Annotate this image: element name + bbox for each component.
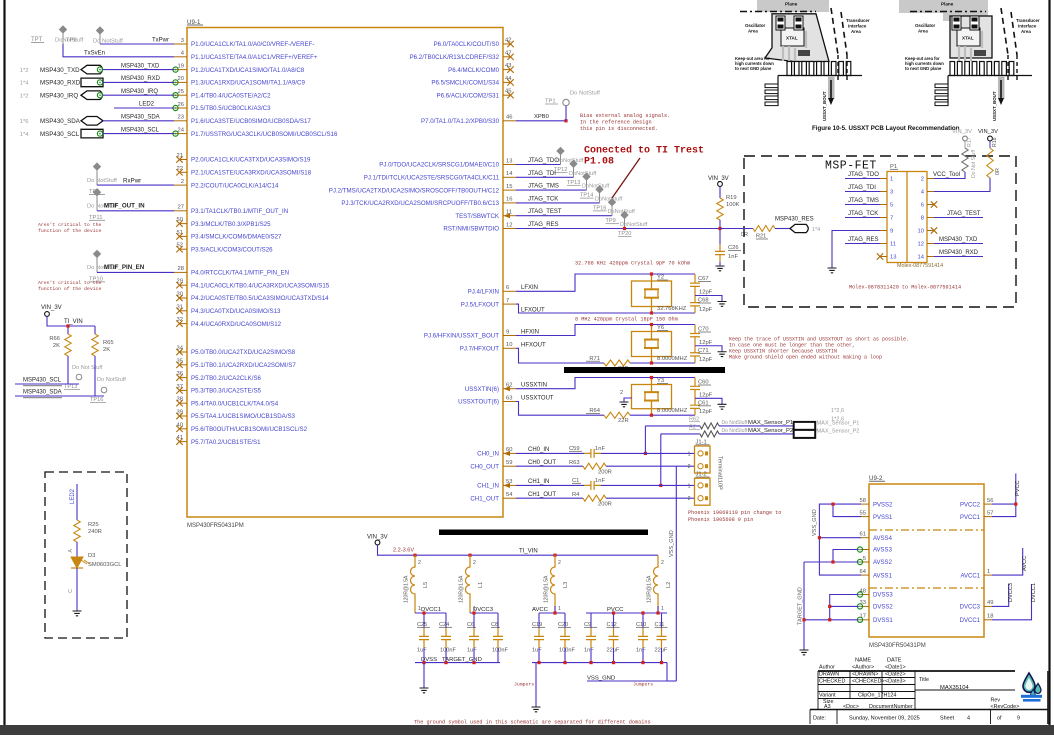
pin 45 P6.6 xyxy=(437,89,514,100)
svg-text:DVSS3: DVSS3 xyxy=(873,593,893,599)
wire R21 to port xyxy=(775,228,790,230)
wire MAX_Sensor_P2 xyxy=(659,434,794,487)
svg-text:P2.2/COUT/UCA0CLK/A14/C14: P2.2/COUT/UCA0CLK/A14/C14 xyxy=(191,182,279,189)
svg-text:CH0_OUT: CH0_OUT xyxy=(470,463,499,470)
wire PVCC xyxy=(992,474,1021,517)
wire C1 to J1-2.1 xyxy=(601,484,694,486)
svg-text:P4.1/UCA0CLK/TB0.4/UCA3RXD/UCA: P4.1/UCA0CLK/TB0.4/UCA3RXD/UCA3SOMI/S15 xyxy=(191,282,330,289)
pin - AVSS3 xyxy=(857,547,892,554)
svg-text:P1.1/UCA1STE/TA4.0/A1/C1/VREF+: P1.1/UCA1STE/TA4.0/A1/C1/VREF+/VEREF+ xyxy=(191,54,318,61)
pins 13/14 of P1 xyxy=(880,255,934,261)
pin 32 P4.4 xyxy=(176,317,281,328)
resistor R64 22R xyxy=(586,408,630,424)
svg-text:55: 55 xyxy=(860,510,866,516)
pin 14 PJ.1 xyxy=(364,171,516,181)
svg-text:TP16: TP16 xyxy=(90,397,103,403)
svg-text:MSP430_TXD: MSP430_TXD xyxy=(40,67,80,74)
svg-text:3: 3 xyxy=(890,190,893,196)
wire MTIF_PIN_EN to U9-1 xyxy=(97,264,174,272)
svg-text:VSS_GND: VSS_GND xyxy=(812,509,818,536)
svg-text:5: 5 xyxy=(890,203,893,209)
pin 12 RST xyxy=(443,222,516,232)
note: Conected to TI Trest P1.08 xyxy=(584,145,704,199)
svg-text:9: 9 xyxy=(890,229,893,235)
svg-text:P4.3/UCA0TXD/UCA0SIMO/S13: P4.3/UCA0TXD/UCA0SIMO/S13 xyxy=(191,308,281,315)
wire pin4 to 0R xyxy=(934,178,990,192)
capacitor C19 1uF xyxy=(532,622,545,654)
svg-text:R18: R18 xyxy=(992,137,998,147)
svg-text:C: C xyxy=(68,589,74,593)
svg-text:DVCC3: DVCC3 xyxy=(960,605,981,611)
svg-text:R4: R4 xyxy=(572,492,580,498)
svg-text:USSXTOUT(6): USSXTOUT(6) xyxy=(458,399,499,406)
svg-text:23: 23 xyxy=(178,115,184,121)
test point TP20 Do Not Stuff xyxy=(618,211,648,237)
wire MAX_Sensor_P1 xyxy=(644,426,794,455)
pin 43 P6.4 xyxy=(448,63,514,74)
connector J1-1 xyxy=(688,440,710,474)
capacitor C71 12pF xyxy=(690,346,713,363)
svg-text:D3: D3 xyxy=(88,553,95,559)
capacitor C70 12pF xyxy=(690,325,713,346)
wire DVCC3 caps to DVSS rail xyxy=(472,648,498,664)
wire D3 to ground xyxy=(76,568,78,611)
svg-text:PVSS1: PVSS1 xyxy=(873,515,893,521)
pins 5/6 of P1 xyxy=(880,203,934,209)
pin 3 P1.0 xyxy=(174,38,314,48)
svg-text:P1.08: P1.08 xyxy=(584,157,614,168)
svg-text:TP20: TP20 xyxy=(618,231,631,237)
pin 51 P3.4 xyxy=(176,230,282,241)
test point TP12 Do Not Stuff xyxy=(554,147,584,173)
svg-text:1: 1 xyxy=(688,483,691,489)
wire VIN_3V rail xyxy=(47,316,95,334)
pin 9 PJ.6 xyxy=(424,329,516,339)
svg-text:MSP430FR50431PM: MSP430FR50431PM xyxy=(869,643,926,649)
wire 8.0000MHZ bottom rail xyxy=(516,402,695,416)
svg-text:61: 61 xyxy=(860,532,866,538)
svg-text:P6.5/SMCLK/COM1/S34: P6.5/SMCLK/COM1/S34 xyxy=(431,80,499,87)
svg-text:to next GND plane: to next GND plane xyxy=(735,66,772,71)
svg-text:19: 19 xyxy=(178,63,184,69)
svg-text:1*4: 1*4 xyxy=(812,227,820,233)
svg-text:<Date3>: <Date3> xyxy=(885,679,906,685)
svg-text:P5.7/TA0.2/UCB1STE/S1: P5.7/TA0.2/UCB1STE/S1 xyxy=(191,439,261,446)
svg-text:P6.0/TA0CLK/COUT/S0: P6.0/TA0CLK/COUT/S0 xyxy=(434,41,500,48)
svg-text:USSXT_BOUT: USSXT_BOUT xyxy=(992,91,997,121)
svg-text:14: 14 xyxy=(506,171,513,177)
svg-text:12pF: 12pF xyxy=(699,290,713,296)
svg-text:120R@1.5A: 120R@1.5A xyxy=(459,575,465,603)
svg-text:Interface: Interface xyxy=(848,24,867,29)
test point TP5 (Do Not Stuff) xyxy=(87,162,117,195)
note: bias external analog signals xyxy=(580,113,670,132)
inductor L5 120R@1.5A xyxy=(404,554,430,613)
svg-text:C61: C61 xyxy=(698,400,709,406)
svg-text:P7.0/TA1.0/TA1.2/XPB0/S30: P7.0/TA1.0/TA1.2/XPB0/S30 xyxy=(421,118,500,125)
resistor R4 200R xyxy=(572,492,612,508)
svg-text:1*2: 1*2 xyxy=(20,68,29,74)
svg-text:Transducer: Transducer xyxy=(1016,18,1040,23)
svg-text:P4.4/UCA0RXD/UCA0SOMI/S12: P4.4/UCA0RXD/UCA0SOMI/S12 xyxy=(191,321,282,328)
svg-text:Jumpers: Jumpers xyxy=(514,682,534,688)
svg-text:Molex-0878311420 to Molex-0877: Molex-0878311420 to Molex-0877591414 xyxy=(849,285,961,291)
svg-text:1uF: 1uF xyxy=(417,648,427,654)
pin 13 no-connect xyxy=(877,253,883,259)
wire 32.768KHZ bottom rail xyxy=(516,304,695,313)
svg-text:TARGET_GND: TARGET_GND xyxy=(798,587,804,625)
svg-text:4: 4 xyxy=(967,716,970,722)
svg-text:PJ.2/TMS/UCA2TXD/UCA2SIMO/SROS: PJ.2/TMS/UCA2TXD/UCA2SIMO/SROSCOFF/TB0OU… xyxy=(329,187,500,194)
svg-text:CHECKED: CHECKED xyxy=(819,679,845,685)
svg-text:MSP430_RXD: MSP430_RXD xyxy=(40,80,81,87)
svg-text:Do Not Stuff: Do Not Stuff xyxy=(72,365,103,371)
capacitor C12 22uF xyxy=(607,622,620,664)
pin 46 P7.0 xyxy=(421,115,516,125)
svg-text:MAX_Sensor_P1: MAX_Sensor_P1 xyxy=(748,420,793,426)
svg-text:2: 2 xyxy=(661,560,664,566)
svg-text:P2.0/UCA1CLK/UCA3TXD/UCA3SIMO/: P2.0/UCA1CLK/UCA3TXD/UCA3SIMO/S19 xyxy=(191,157,311,164)
pin 39 P5.5 xyxy=(176,410,295,421)
wire C59 to J1-1.1 xyxy=(601,452,694,454)
capacitor C1 1nF xyxy=(572,478,605,490)
svg-text:JTAG_TDI: JTAG_TDI xyxy=(528,171,556,177)
svg-text:27: 27 xyxy=(178,205,184,211)
svg-text:USSXTOUT: USSXTOUT xyxy=(521,395,554,401)
svg-text:JTAG_TCK: JTAG_TCK xyxy=(848,211,878,217)
svg-text:Title: Title xyxy=(919,677,929,683)
svg-text:PVCC: PVCC xyxy=(1015,480,1021,496)
wire R25 to D3 xyxy=(76,542,78,557)
svg-text:13: 13 xyxy=(890,255,896,261)
pin 35 P5.1 xyxy=(176,358,296,369)
svg-text:<Date2>: <Date2> xyxy=(885,672,906,678)
note: USSXT trace recommendation xyxy=(729,337,909,361)
svg-text:A: A xyxy=(68,549,74,553)
svg-text:Oscillator: Oscillator xyxy=(915,23,936,28)
pin 11 TEST xyxy=(455,210,516,220)
svg-text:22R: 22R xyxy=(618,418,629,424)
pins 1/2 of P1 xyxy=(880,177,934,183)
wire MSP430_SCL xyxy=(15,356,79,386)
svg-text:Plane: Plane xyxy=(785,2,798,7)
svg-text:6: 6 xyxy=(921,203,924,209)
svg-text:2.2-3.6V: 2.2-3.6V xyxy=(393,548,414,554)
svg-text:Area: Area xyxy=(1021,29,1031,34)
svg-text:Phoenix 19069110 pin change to: Phoenix 19069110 pin change to xyxy=(688,510,781,516)
svg-text:10: 10 xyxy=(506,342,512,348)
svg-text:32.768KHZ: 32.768KHZ xyxy=(657,306,687,312)
pin 42 P6.0 xyxy=(434,38,514,49)
svg-text:1nF: 1nF xyxy=(584,648,594,654)
inductor L1 120R@1.5A xyxy=(459,554,485,613)
svg-text:MSP430_SCL: MSP430_SCL xyxy=(23,378,62,384)
svg-text:10: 10 xyxy=(918,229,924,235)
port MAX_Sensor_P1 xyxy=(748,420,859,430)
pin 62 USSXTIN(6) xyxy=(465,383,516,393)
svg-text:CH0_OUT: CH0_OUT xyxy=(528,460,556,466)
ground (P1 pin 9) xyxy=(828,268,837,273)
svg-text:VIN_3V: VIN_3V xyxy=(41,305,62,311)
svg-text:R63: R63 xyxy=(569,460,580,466)
svg-text:1uF: 1uF xyxy=(467,648,477,654)
svg-text:Author: Author xyxy=(819,665,835,671)
svg-text:XTAL: XTAL xyxy=(786,36,798,41)
svg-text:PVCC1: PVCC1 xyxy=(960,515,981,521)
svg-text:15: 15 xyxy=(506,184,512,190)
ground (crystal Y3 case pin 2) xyxy=(620,390,633,407)
svg-text:P5.4/TA0.0/UCB1CLK/TA4.0/S4: P5.4/TA0.0/UCB1CLK/TA4.0/S4 xyxy=(191,400,279,407)
svg-text:1*6: 1*6 xyxy=(20,119,29,125)
svg-text:Sunday, November 09, 2025: Sunday, November 09, 2025 xyxy=(849,716,920,722)
wire CH0_IN xyxy=(516,447,584,453)
test point TP10 (Do Not Stuff) xyxy=(87,250,117,283)
pin 15 PJ.2 xyxy=(329,184,516,194)
svg-text:PVCC2: PVCC2 xyxy=(960,502,981,508)
test point TP6 (Do Not Stuff) on TxSvEn xyxy=(55,25,84,44)
svg-text:TI_VIN: TI_VIN xyxy=(519,549,538,555)
svg-text:56: 56 xyxy=(987,498,993,504)
svg-text:Y2: Y2 xyxy=(657,275,664,281)
svg-text:CH1_IN: CH1_IN xyxy=(528,479,549,485)
svg-text:1nF: 1nF xyxy=(636,648,646,654)
wire TxPwr to pin 3 xyxy=(100,38,174,45)
svg-text:0R: 0R xyxy=(995,168,1001,175)
capacitor C24 100nF xyxy=(439,622,456,654)
svg-text:Do NotStuff: Do NotStuff xyxy=(97,377,126,383)
svg-text:DVSS2: DVSS2 xyxy=(873,605,893,611)
svg-text:P1.3/UCA1RXD/UCA1SOMI/TA1.1/A9: P1.3/UCA1RXD/UCA1SOMI/TA1.1/A9/C9 xyxy=(191,80,305,87)
pin 63 USSXTOUT(6) xyxy=(458,395,516,405)
svg-text:PJ.7/HFXOUT: PJ.7/HFXOUT xyxy=(460,346,499,353)
svg-text:XPB0: XPB0 xyxy=(534,114,549,120)
svg-text:42: 42 xyxy=(505,38,511,44)
svg-text:R17: R17 xyxy=(967,137,973,147)
pins 7/8 of P1 xyxy=(880,216,934,222)
wire 8.0000MHZ top rail xyxy=(516,378,695,389)
net refs 1*2,6 xyxy=(831,408,844,423)
wire RxPwr to U9-1 xyxy=(97,178,174,186)
note: Phoenix connector xyxy=(688,510,781,523)
svg-text:1*2,6: 1*2,6 xyxy=(831,417,844,423)
pin 48 DVSS3 xyxy=(857,588,893,598)
svg-text:DVCC1: DVCC1 xyxy=(1031,583,1037,602)
svg-text:6: 6 xyxy=(506,285,509,291)
pin 52 P3.5 xyxy=(176,243,273,254)
ground (crystal caps) xyxy=(718,302,727,307)
svg-text:2: 2 xyxy=(418,560,421,566)
svg-text:CH1_IN: CH1_IN xyxy=(477,483,499,490)
wire PVCC rail xyxy=(586,606,667,628)
svg-text:9: 9 xyxy=(1017,716,1020,722)
svg-text:DoNotStuff: DoNotStuff xyxy=(556,158,584,164)
svg-text:USSXTIN(6): USSXTIN(6) xyxy=(465,386,499,393)
resistor R17 Do Not Stuff xyxy=(962,137,977,178)
svg-text:RxPwr: RxPwr xyxy=(123,178,141,185)
test point TP9 Do Not Stuff xyxy=(606,198,636,224)
svg-text:Conected to TI Trest: Conected to TI Trest xyxy=(584,145,704,157)
svg-text:1: 1 xyxy=(890,177,893,183)
svg-text:MSP430_RES: MSP430_RES xyxy=(775,217,814,223)
pins 3/4 of P1 xyxy=(880,190,934,196)
svg-text:JTAG_TEST: JTAG_TEST xyxy=(947,211,981,217)
svg-text:3: 3 xyxy=(181,38,184,44)
svg-text:JTAG_TMS: JTAG_TMS xyxy=(848,198,879,204)
wire MSP430_RXD (P1) xyxy=(934,250,983,257)
junction JTAG_RES/TP20 xyxy=(623,227,626,230)
resistor R25 240R xyxy=(74,520,102,542)
pin 64 AVSS1 xyxy=(860,569,893,579)
svg-text:USSXTIN: USSXTIN xyxy=(521,383,547,389)
svg-text:TP13: TP13 xyxy=(64,384,77,390)
ground (DVSS) xyxy=(420,688,429,693)
test point TP (Do Not Stuff) on TxPwr xyxy=(93,26,123,44)
port MSP430_IRQ xyxy=(20,91,103,100)
svg-text:1: 1 xyxy=(688,451,691,457)
svg-text:NAME: NAME xyxy=(855,658,871,664)
svg-text:AVCC: AVCC xyxy=(532,607,549,613)
pin 58 PVSS2 xyxy=(860,498,893,508)
pin 24 P1.7 xyxy=(173,127,338,137)
svg-text:TxPwr: TxPwr xyxy=(152,38,169,44)
wire AVCC xyxy=(992,548,1028,575)
svg-text:CH0_IN: CH0_IN xyxy=(477,451,499,458)
svg-text:AVSS2: AVSS2 xyxy=(873,560,893,566)
wire AVSS group xyxy=(804,550,859,564)
svg-text:JTAG_RES: JTAG_RES xyxy=(848,237,879,243)
svg-text:VIN_3V: VIN_3V xyxy=(978,129,998,135)
wire JTAG_RES xyxy=(516,222,720,229)
svg-text:49: 49 xyxy=(987,600,993,606)
svg-text:16: 16 xyxy=(506,197,512,203)
port MSP430_RES xyxy=(775,217,820,234)
pin 20 P1.3 xyxy=(173,76,306,86)
svg-text:ClipOn_17H124: ClipOn_17H124 xyxy=(858,693,896,699)
wire MSP430_TXD xyxy=(103,63,174,69)
svg-text:L5: L5 xyxy=(423,582,429,588)
wire JTAG_TDI (P1) xyxy=(845,185,880,192)
svg-text:1uF: 1uF xyxy=(532,648,542,654)
power VIN_3V (R17) xyxy=(952,129,972,148)
resistor R21 0R xyxy=(741,226,775,240)
svg-text:VIN_3V: VIN_3V xyxy=(952,129,972,135)
pin 5 AVSS2 xyxy=(857,556,892,566)
svg-text:R19: R19 xyxy=(726,195,737,201)
svg-text:240R: 240R xyxy=(88,529,102,535)
pin 27 P3.1 xyxy=(174,205,288,215)
svg-text:P1.2/UCA1TXD/UCA1SIMO/TA1.0/A8: P1.2/UCA1TXD/UCA1SIMO/TA1.0/A8/C8 xyxy=(191,67,305,74)
wire JTAG_TDO xyxy=(516,158,561,165)
svg-text:PVSS2: PVSS2 xyxy=(873,502,893,508)
svg-text:P3.1/TA1CLK/TB0.1/MTIF_OUT_IN: P3.1/TA1CLK/TB0.1/MTIF_OUT_IN xyxy=(191,208,288,215)
svg-text:58: 58 xyxy=(860,498,866,504)
title block xyxy=(810,658,1048,725)
wire MSP430_RXD xyxy=(103,76,174,82)
logo (water drops) xyxy=(1021,673,1042,702)
svg-text:DATE: DATE xyxy=(887,658,902,664)
capacitor C68 12pF xyxy=(690,296,713,314)
svg-text:TP13: TP13 xyxy=(567,180,580,186)
svg-text:SM0603GCL: SM0603GCL xyxy=(88,562,122,568)
pin 33 DVSS2 xyxy=(857,600,893,610)
pin 41 P5.7 xyxy=(176,435,261,446)
svg-text:14: 14 xyxy=(918,255,925,261)
wire TxSvEn to pin 4 xyxy=(63,44,174,57)
pin 10 no-connect xyxy=(931,227,937,233)
svg-text:59: 59 xyxy=(506,460,512,466)
svg-text:20: 20 xyxy=(178,76,184,82)
LED block dashed box xyxy=(45,472,127,638)
svg-text:12: 12 xyxy=(918,242,924,248)
resistor R18 0R xyxy=(987,137,1001,178)
svg-text:MSP430_TXD: MSP430_TXD xyxy=(121,63,160,69)
pin 59 CH0_OUT xyxy=(470,460,516,470)
crystal Y3 8.0000MHZ xyxy=(632,376,688,417)
wire R63 to J1-1.2 xyxy=(606,465,694,467)
svg-text:MSP430_IRQ: MSP430_IRQ xyxy=(40,92,78,99)
pin 55 PVSS1 xyxy=(860,510,893,520)
svg-text:TP16: TP16 xyxy=(593,205,606,211)
wire cap midpoint to ground xyxy=(695,346,722,352)
svg-text:MSP430FR50431PM: MSP430FR50431PM xyxy=(187,523,244,529)
svg-text:P5.0/TB0.0/UCA2TXD/UCA2SIMO/S8: P5.0/TB0.0/UCA2TXD/UCA2SIMO/S8 xyxy=(191,349,296,356)
test point TP1 Do Not Stuff xyxy=(545,91,600,121)
svg-text:18: 18 xyxy=(987,614,993,620)
wire AVCC caps to rail xyxy=(532,648,667,707)
svg-text:HFXIN: HFXIN xyxy=(521,330,539,336)
inductor L3 120R@1.5A xyxy=(544,554,570,613)
pin 47 P6.2 xyxy=(410,50,514,61)
svg-text:1*2: 1*2 xyxy=(20,93,29,99)
svg-text:2: 2 xyxy=(181,179,184,185)
IC U9-1 MSP430FR50431PM xyxy=(187,19,503,529)
wire cap midpoint to ground xyxy=(695,296,722,302)
test point TP14 Do Not Stuff xyxy=(580,172,610,198)
MSP-FET dashed box xyxy=(744,156,1016,307)
svg-text:2: 2 xyxy=(473,560,476,566)
svg-text:<DRAWN>: <DRAWN> xyxy=(852,672,878,678)
wire LED2 to pin 26 xyxy=(114,102,174,109)
svg-text:JTAG_TDI: JTAG_TDI xyxy=(848,185,876,191)
wire JTAG_TEST xyxy=(516,209,612,216)
svg-text:CH1_OUT: CH1_OUT xyxy=(470,495,499,502)
svg-text:DVCC3: DVCC3 xyxy=(1008,583,1014,602)
svg-text:120R@1.5A: 120R@1.5A xyxy=(404,575,410,603)
svg-text:TP14: TP14 xyxy=(580,193,593,199)
svg-text:AVSS4: AVSS4 xyxy=(873,536,893,542)
pin 1 AVCC1 xyxy=(960,569,992,579)
svg-text:JTAG_TEST: JTAG_TEST xyxy=(528,209,562,215)
svg-text:VIN_3V: VIN_3V xyxy=(708,176,729,182)
svg-text:PJ.6/HFXIN/USSXT_BOUT: PJ.6/HFXIN/USSXT_BOUT xyxy=(424,333,499,340)
svg-text:32.768 KHz 420ppm Crystal 9pF: 32.768 KHz 420ppm Crystal 9pF 70 kOhm xyxy=(575,261,690,267)
svg-text:C60: C60 xyxy=(698,380,709,386)
svg-text:PJ.5/LFXOUT: PJ.5/LFXOUT xyxy=(461,301,499,308)
test point TP16 Do Not Stuff xyxy=(90,377,126,403)
svg-text:XTAL: XTAL xyxy=(962,36,974,41)
svg-text:R65: R65 xyxy=(103,340,114,346)
wire CH1_OUT xyxy=(516,492,583,498)
resistor R63 200R xyxy=(569,460,612,476)
svg-text:P4.2/UCA0STE/TB0.5/UCA3SIMO/UC: P4.2/UCA0STE/TB0.5/UCA3SIMO/UCA3TXD/S14 xyxy=(191,295,329,302)
svg-text:DVCC1: DVCC1 xyxy=(960,618,981,624)
wire MSP430_SDA xyxy=(15,356,104,398)
svg-text:12pF: 12pF xyxy=(699,307,713,313)
svg-text:AVSS3: AVSS3 xyxy=(873,548,893,554)
svg-text:1nF: 1nF xyxy=(728,254,738,260)
svg-text:JTAG_RES: JTAG_RES xyxy=(528,222,559,228)
wire JTAG_TDI xyxy=(516,171,574,178)
